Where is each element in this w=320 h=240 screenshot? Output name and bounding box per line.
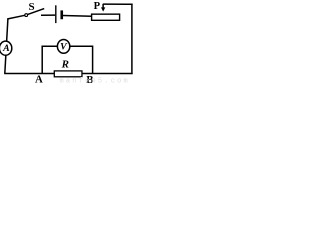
svg-text:S: S <box>29 1 35 13</box>
voltmeter V <box>57 40 69 54</box>
switch S blade <box>27 9 44 15</box>
wire: right vertical <box>131 4 133 75</box>
wire: voltmeter right lead <box>70 46 93 73</box>
battery negative plate <box>60 10 63 19</box>
svg-text:R: R <box>61 59 69 71</box>
svg-text:A: A <box>2 43 10 54</box>
wire: battery to rheostat <box>63 15 92 18</box>
svg-text:A: A <box>35 74 43 86</box>
wire: switch contact to battery <box>41 14 55 16</box>
wire: left vertical (ammeter branch, slightly skewed) <box>5 19 8 74</box>
wire: top-right horizontal (wiper to right side) <box>103 3 133 5</box>
battery positive plate <box>55 5 57 23</box>
svg-text:P: P <box>94 1 101 12</box>
svg-text:manfen5.com: manfen5.com <box>60 77 130 85</box>
wire: bottom horizontal <box>4 73 132 75</box>
wire: top-left horizontal to switch (slightly skewed) <box>7 15 25 19</box>
rheostat wiper arrow <box>101 4 105 12</box>
wire: voltmeter left lead <box>42 46 57 73</box>
rheostat P body <box>92 14 120 20</box>
resistor R body <box>54 71 82 77</box>
switch S pivot <box>25 14 28 17</box>
ammeter A <box>0 41 12 55</box>
